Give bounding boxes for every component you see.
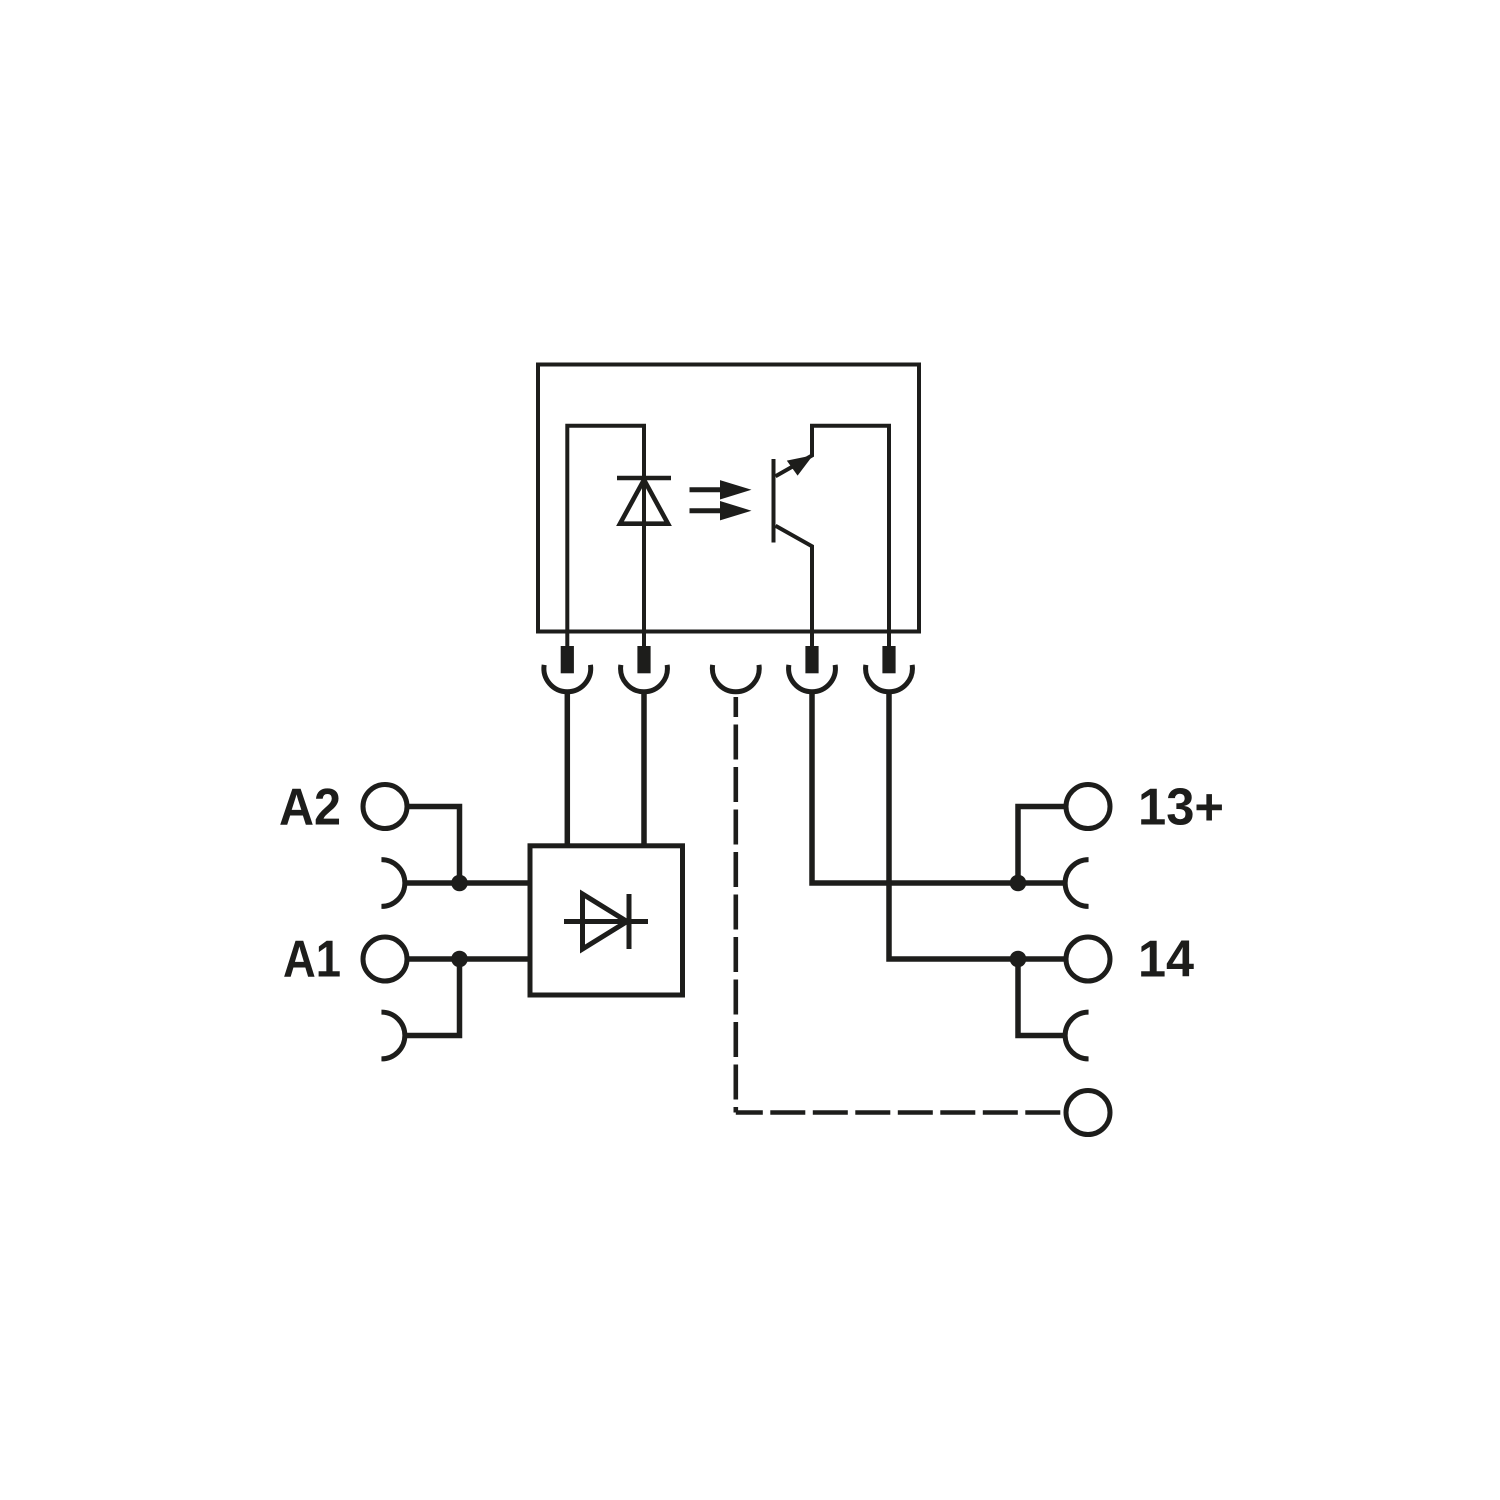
node junction 14 (1010, 951, 1027, 968)
svg-text:A2: A2 (279, 779, 341, 837)
socket arc 2 (621, 665, 668, 692)
wire tail 4 to 13+ row (812, 692, 1018, 883)
phototransistor Q1 emitter wire (776, 526, 813, 632)
socket A1 (381, 1012, 404, 1059)
svg-text:13+: 13+ (1138, 779, 1224, 837)
pin contact 1 (561, 646, 574, 673)
pin contact 5 (882, 646, 895, 673)
wire A1 row to rectifier (407, 956, 530, 962)
socket arc 1 (544, 665, 591, 692)
node junction A2 (451, 875, 468, 892)
socket A2 (381, 860, 404, 907)
socket 13+ (1065, 860, 1088, 907)
light arrow upper head (720, 480, 752, 499)
wire A1 junction to socket (407, 959, 460, 1036)
svg-text:A1: A1 (283, 931, 341, 989)
wire junction to 14 socket (1018, 959, 1064, 1036)
dashed wire from socket 3 down (733, 697, 738, 1113)
wire tail 2 to rectifier (641, 692, 647, 846)
node junction 13+ (1010, 875, 1027, 892)
phototransistor Q1 emitter arrowhead (787, 455, 813, 475)
pin contact 4 (805, 646, 818, 673)
node junction A1 (451, 951, 468, 968)
terminal circle bottom right (1066, 1091, 1110, 1135)
socket 14 (1065, 1012, 1088, 1059)
dashed wire to bottom terminal (736, 1110, 1066, 1115)
optocoupler U1 outer box (538, 365, 919, 632)
socket arc 4 (789, 665, 836, 692)
rectifier diode cathode bar (627, 894, 632, 949)
terminal circle 14 (1066, 937, 1110, 981)
rectifier diode wire (564, 919, 648, 924)
wire tail 5 to 14 row (889, 692, 1066, 959)
rectifier box (530, 846, 683, 995)
rectifier diode triangle (583, 894, 628, 949)
pin stub 5 (887, 632, 891, 648)
light arrow upper shaft (690, 487, 723, 492)
wire tail 1 to rectifier (565, 692, 571, 846)
wire A2 circle to junction (407, 807, 460, 884)
terminal circle A1 (363, 937, 407, 981)
wire LED input loop (567, 426, 644, 632)
pin stub 1 (565, 632, 569, 648)
pin stub 2 (642, 632, 646, 648)
LED D1 cathode bar (617, 476, 671, 481)
wire junction to 13+ terminal (1018, 807, 1066, 884)
terminal circle 13+ (1066, 785, 1110, 829)
socket arc 5 (866, 665, 913, 692)
phototransistor Q1 collector wire loop (776, 426, 890, 632)
socket arc 3 (712, 665, 759, 692)
light arrow lower shaft (690, 508, 723, 513)
light arrow lower head (720, 501, 752, 520)
terminal circle A2 (363, 785, 407, 829)
pin contact 2 (637, 646, 650, 673)
wire junction to 13+ socket (1018, 880, 1064, 886)
pin stub 4 (810, 632, 814, 648)
LED D1 triangle (620, 480, 668, 524)
svg-text:14: 14 (1138, 931, 1194, 989)
wire A2 row to rectifier (407, 880, 530, 886)
phototransistor Q1 base bar (772, 459, 776, 543)
